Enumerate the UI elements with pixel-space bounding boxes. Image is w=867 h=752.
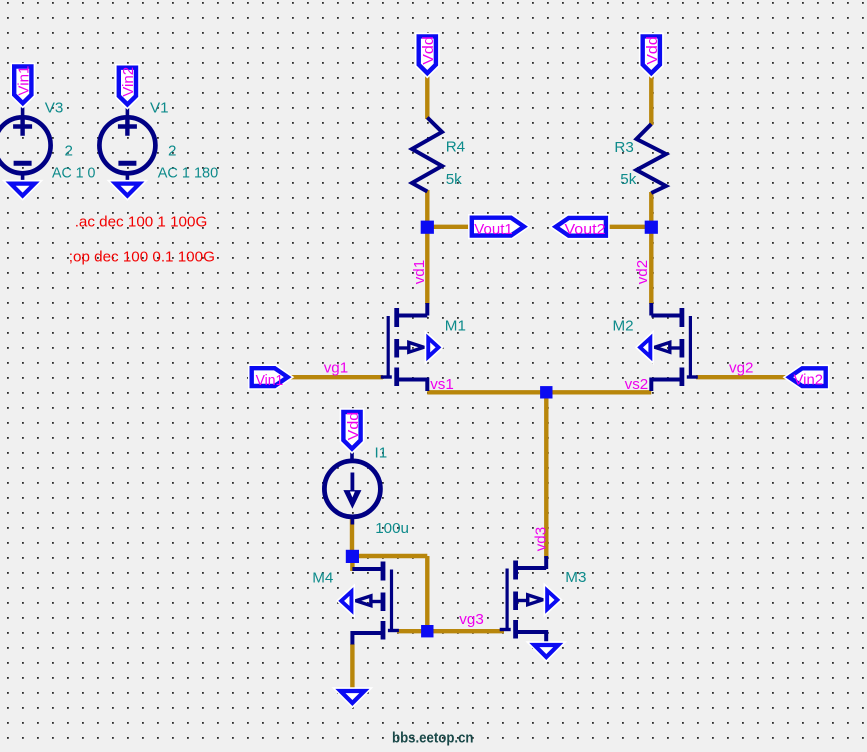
- wire R4 to node vd1: [425, 190, 429, 228]
- voltage source V1: [99, 107, 155, 183]
- svg-text:Vdd: Vdd: [644, 36, 661, 65]
- svg-text:vg3: vg3: [459, 611, 484, 628]
- svg-text:vd1: vd1: [411, 260, 428, 285]
- svg-text:vs1: vs1: [430, 376, 454, 393]
- svg-text:2: 2: [65, 142, 73, 159]
- wire vg1: Vin1 port to M1 gate: [290, 375, 383, 379]
- svg-text:2: 2: [168, 142, 176, 159]
- wire node vd1 to M1 drain: [425, 227, 429, 304]
- junction vg3 node: [421, 625, 433, 637]
- flag output port Vout2: [556, 218, 606, 238]
- ground under V3: [11, 184, 35, 196]
- transistor M1: [381, 303, 439, 391]
- wire I1 output to node: [350, 518, 354, 557]
- svg-text:100u: 100u: [375, 520, 409, 537]
- transistor M3: [500, 556, 558, 644]
- ground under M4 source: [340, 691, 364, 703]
- svg-text:Vin2: Vin2: [120, 67, 137, 97]
- flag input port Vin1: [252, 368, 288, 389]
- wire vd3: tail node down to M3 drain: [544, 392, 548, 558]
- junction I1/M4 drain node: [346, 550, 359, 563]
- flag Vdd above I1: [343, 412, 361, 449]
- svg-text:.ac dec 100 1 100G: .ac dec 100 1 100G: [75, 214, 208, 231]
- wire node vd2 to M2 drain: [649, 227, 653, 304]
- flag output port Vout1: [472, 218, 524, 238]
- flag Vdd above R3: [643, 36, 661, 73]
- voltage source V3: [0, 107, 51, 183]
- wire vg3: M4 gate to M3 gate: [397, 629, 504, 633]
- svg-text:M4: M4: [312, 569, 333, 586]
- svg-text:Vdd: Vdd: [420, 36, 437, 65]
- svg-text:AC 1 0: AC 1 0: [52, 165, 95, 182]
- svg-text:V1: V1: [150, 100, 169, 117]
- svg-text:bbs.eetop.cn: bbs.eetop.cn: [392, 731, 474, 747]
- svg-text:M3: M3: [565, 569, 586, 586]
- wire vs1-vs2: M1 source to M2 source: [427, 390, 651, 394]
- svg-text:vd2: vd2: [634, 260, 651, 285]
- junction node vd2/Vout2: [645, 221, 658, 234]
- svg-text:V3: V3: [45, 100, 64, 117]
- svg-text:vs2: vs2: [625, 376, 649, 393]
- resistor R3: [637, 124, 667, 193]
- current source I1: [324, 447, 380, 525]
- wire Vout2 flag to node vd2: [607, 225, 651, 229]
- transistor M2: [640, 303, 698, 391]
- svg-text:AC 1 180: AC 1 180: [158, 165, 219, 182]
- svg-text:Vout2: Vout2: [565, 221, 606, 238]
- flag Vdd above R4: [419, 36, 437, 73]
- svg-text:Vin2: Vin2: [794, 372, 824, 389]
- wire M4 drain from node: [350, 558, 354, 571]
- svg-text:Vin1: Vin1: [256, 372, 284, 389]
- svg-text:M2: M2: [613, 317, 634, 334]
- flag port Vin1 (top-left, input of V3): [14, 66, 32, 104]
- wire node to right toward vg3: [352, 554, 427, 558]
- junction node vd1/Vout1: [421, 221, 434, 234]
- transistor M4: [341, 562, 399, 645]
- wire node vd1 to Vout1 flag: [427, 225, 471, 229]
- wire R3 to node vd2: [649, 192, 653, 228]
- svg-text:Vdd: Vdd: [345, 412, 362, 441]
- svg-text:5k: 5k: [446, 171, 462, 188]
- svg-text:M1: M1: [445, 317, 466, 334]
- svg-text:R3: R3: [614, 139, 633, 156]
- svg-text:R4: R4: [446, 138, 465, 155]
- wire Vdd1 to R4: [425, 74, 429, 119]
- junction tail node vs1/vs2: [540, 386, 552, 398]
- flag input port Vin2: [789, 368, 826, 388]
- resistor R4: [412, 118, 442, 192]
- wire down to vg3 junction: [425, 556, 429, 632]
- svg-text:Vout1: Vout1: [474, 221, 513, 238]
- svg-text:vd3: vd3: [532, 527, 549, 552]
- svg-text:vg2: vg2: [729, 359, 754, 376]
- svg-text:I1: I1: [375, 445, 388, 462]
- svg-text:Vin1: Vin1: [16, 66, 33, 96]
- svg-text:vg1: vg1: [324, 360, 349, 377]
- wire vg2: M2 gate to Vin2 port: [696, 375, 787, 379]
- wire Vdd2 to R3: [649, 75, 653, 126]
- ground under M3 source: [534, 645, 558, 657]
- ground under V1: [115, 184, 139, 196]
- svg-text:5k: 5k: [620, 171, 636, 188]
- wire M4 source to ground: [350, 644, 354, 691]
- svg-text:;op dec 100 0.1 100G: ;op dec 100 0.1 100G: [69, 248, 215, 265]
- flag port Vin2 (input of V1): [119, 67, 137, 105]
